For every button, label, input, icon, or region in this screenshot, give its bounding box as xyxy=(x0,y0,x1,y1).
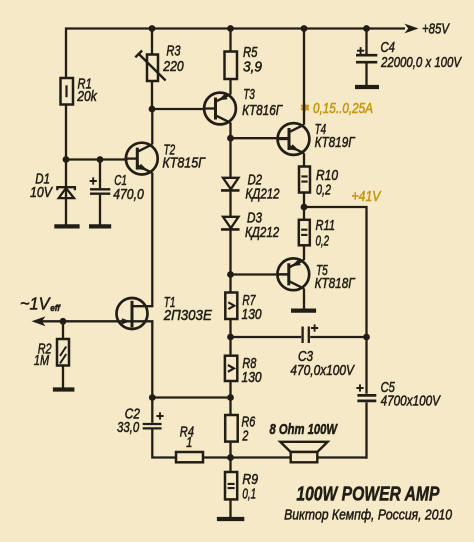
svg-text:0,2: 0,2 xyxy=(316,233,330,249)
svg-text:Виктор Кемпф, Россия, 2010: Виктор Кемпф, Россия, 2010 xyxy=(284,507,453,524)
svg-text:22000,0 x 100V: 22000,0 x 100V xyxy=(380,55,462,71)
svg-text:220: 220 xyxy=(162,59,183,75)
svg-text:0,1: 0,1 xyxy=(242,487,256,503)
svg-text:8 Ohm 100W: 8 Ohm 100W xyxy=(270,422,339,438)
svg-text:20k: 20k xyxy=(76,89,97,105)
svg-text:~1V: ~1V xyxy=(20,294,52,314)
svg-text:130: 130 xyxy=(242,307,262,323)
svg-text:+85V: +85V xyxy=(422,22,450,38)
svg-text:470,0: 470,0 xyxy=(113,187,144,203)
svg-text:470,0x100V: 470,0x100V xyxy=(290,363,355,379)
svg-text:T3: T3 xyxy=(243,87,255,103)
svg-text:130: 130 xyxy=(242,370,262,386)
svg-text:C4: C4 xyxy=(381,40,396,56)
svg-text:2П303Е: 2П303Е xyxy=(163,308,212,324)
svg-text:КТ816Г: КТ816Г xyxy=(242,103,283,119)
svg-text:КТ819Г: КТ819Г xyxy=(315,135,356,151)
svg-text:eff: eff xyxy=(50,303,61,314)
svg-text:33,0: 33,0 xyxy=(117,420,139,436)
svg-text:R11: R11 xyxy=(316,218,336,234)
svg-text:КД212: КД212 xyxy=(245,187,279,203)
svg-text:R3: R3 xyxy=(166,44,180,60)
svg-text:10V: 10V xyxy=(30,185,53,201)
svg-text:4700x100V: 4700x100V xyxy=(381,394,441,410)
svg-text:0,2: 0,2 xyxy=(316,183,331,199)
svg-text:100W POWER AMP: 100W POWER AMP xyxy=(296,482,439,505)
svg-text:КД212: КД212 xyxy=(245,225,279,241)
svg-text:0,15..0,25A: 0,15..0,25A xyxy=(313,101,373,117)
svg-text:КТ815Г: КТ815Г xyxy=(162,156,205,172)
svg-text:2: 2 xyxy=(242,428,249,444)
svg-text:3,9: 3,9 xyxy=(243,60,262,76)
svg-text:1M: 1M xyxy=(34,353,50,369)
svg-text:+41V: +41V xyxy=(352,189,382,205)
svg-text:КТ818Г: КТ818Г xyxy=(315,276,356,292)
svg-text:1: 1 xyxy=(186,435,192,451)
